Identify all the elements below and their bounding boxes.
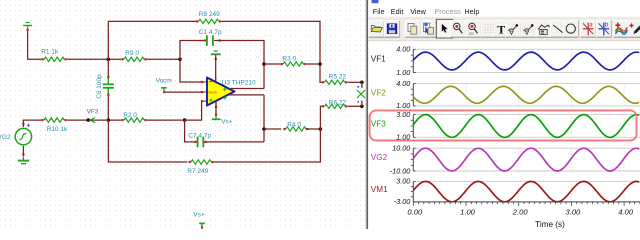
svg-text:VF3: VF3 <box>371 120 386 129</box>
svg-text:R2 0: R2 0 <box>123 112 137 119</box>
wire C7 to node D column <box>205 141 264 143</box>
wire Vocm to op-amp <box>165 91 202 93</box>
svg-text:R1 1k: R1 1k <box>41 48 59 55</box>
svg-text:10.00: 10.00 <box>392 144 410 153</box>
svg-text:Vocm: Vocm <box>156 77 172 84</box>
resistor R9 <box>122 50 147 61</box>
wire op-amp V+ pin to Vs+ <box>215 102 217 114</box>
svg-text:VG2: VG2 <box>371 153 388 162</box>
svg-text:VF3: VF3 <box>87 109 99 116</box>
svg-text:C6 100p: C6 100p <box>96 74 103 99</box>
ground GND2 above op-amp supply pin <box>211 51 221 60</box>
svg-text:File: File <box>373 7 385 16</box>
resistor R5 <box>322 74 347 85</box>
svg-text:C7 4.7p: C7 4.7p <box>188 132 211 139</box>
capacitor C1 <box>199 29 222 46</box>
wire GND2 to op-amp V- pin <box>215 55 217 81</box>
svg-text:-3.00: -3.00 <box>394 197 410 206</box>
op-amp U1 THP210 <box>203 77 256 106</box>
node output- dot and stub <box>357 101 363 108</box>
resistor R1 <box>41 48 66 61</box>
svg-text:T: T <box>497 23 505 37</box>
node C junction (R8 feedback tap) <box>318 62 322 66</box>
svg-text:Vocm: Vocm <box>208 91 217 95</box>
resistor R4 <box>283 121 308 131</box>
wire R4 to node E <box>306 128 320 130</box>
wire C1 to output column <box>214 41 264 89</box>
svg-text:R3 0: R3 0 <box>282 55 296 62</box>
wire node G down to C7 <box>185 120 196 142</box>
wire C6 down to node F <box>107 96 109 121</box>
wire R7 to node E <box>214 129 321 162</box>
svg-text:2.00: 2.00 <box>512 207 529 216</box>
wire R10 to node F <box>67 119 122 121</box>
svg-text:100: 100 <box>469 32 475 36</box>
voltage pin VF3 <box>87 109 99 123</box>
wire node A up to R8 row <box>108 21 196 59</box>
wire R9 to node B <box>147 58 180 60</box>
svg-text:4.00: 4.00 <box>618 207 634 216</box>
svg-text:VF1: VF1 <box>371 55 386 64</box>
capacitor C6 <box>96 74 114 99</box>
svg-text:Help: Help <box>464 7 479 16</box>
oscilloscope window <box>366 0 640 229</box>
node D junction (out- / R4 / C7) <box>262 127 266 131</box>
svg-text:1.00: 1.00 <box>396 101 410 110</box>
wire ground to R1 <box>28 31 42 60</box>
node B junction <box>178 58 182 62</box>
svg-text:R9 0: R9 0 <box>125 50 139 57</box>
svg-text:Vs+: Vs+ <box>193 211 205 218</box>
wire node G to op-amp in+ <box>185 101 203 120</box>
capacitor C7 <box>188 132 211 147</box>
wire out- down to R4 row and C7 <box>263 95 265 142</box>
wire node B up to C1 <box>180 41 204 60</box>
Vs+ supply tee below op-amp <box>212 106 233 125</box>
ground GND1 <box>23 23 32 31</box>
wire R1 to node A <box>67 58 107 60</box>
wire node E up to R6 <box>320 106 322 129</box>
ground GND3 below VG2 <box>18 157 29 164</box>
svg-text:4.00: 4.00 <box>396 79 410 88</box>
svg-text:U3 THP210: U3 THP210 <box>222 79 256 86</box>
svg-text:VF2: VF2 <box>371 88 386 97</box>
wire op-amp out- <box>230 94 265 96</box>
svg-text:View: View <box>410 7 426 16</box>
svg-text:4.00: 4.00 <box>396 45 410 54</box>
node F junction (VF3 net) <box>107 118 111 122</box>
node A junction <box>107 58 111 62</box>
wire node A down to C6 <box>107 59 109 76</box>
wire node D to R4 <box>264 128 281 130</box>
svg-text:Vs+: Vs+ <box>221 118 233 125</box>
Vocm input tee <box>156 77 172 93</box>
svg-text:-10.00: -10.00 <box>390 166 410 175</box>
wire R2 to node G <box>147 119 183 121</box>
wire op-amp out+ <box>231 88 265 90</box>
resistor R6 <box>322 99 347 108</box>
node G junction (in+ / C7) <box>183 118 187 122</box>
svg-text:R10 1k: R10 1k <box>47 126 68 133</box>
svg-text:VM1: VM1 <box>371 185 388 194</box>
wire node B down to op-amp in- <box>180 59 203 82</box>
svg-text:Process: Process <box>434 7 461 16</box>
svg-text:Time (s): Time (s) <box>535 220 565 229</box>
resistor R2 <box>122 112 147 122</box>
wire VG2 to ground <box>22 146 24 157</box>
svg-text:C1 4.7p: C1 4.7p <box>199 29 222 36</box>
resistor R7 <box>187 160 213 175</box>
svg-text:R4 0: R4 0 <box>287 121 301 128</box>
svg-text:0.00: 0.00 <box>407 207 423 216</box>
svg-text:R7 249: R7 249 <box>187 168 208 175</box>
svg-text:3.00: 3.00 <box>566 207 582 216</box>
wire R6 to output pin <box>347 105 362 107</box>
Vs+ supply tee bottom <box>193 211 205 228</box>
wire VG2 to R10 <box>23 120 41 127</box>
resistor R8 <box>196 11 221 24</box>
svg-text:R5 22: R5 22 <box>329 74 347 81</box>
svg-text:R8 249: R8 249 <box>199 11 220 18</box>
wire node F down to R7 row <box>108 120 187 162</box>
svg-text:1.00: 1.00 <box>396 68 410 77</box>
wire R3 to node C <box>306 63 320 65</box>
node E junction (R6/R7 tap) <box>319 127 323 131</box>
wire R8 to output node <box>221 21 322 82</box>
resistor R3 <box>281 55 306 66</box>
node out+ junction (C1/R3 column) <box>262 62 266 66</box>
svg-text:1.00: 1.00 <box>460 207 476 216</box>
svg-text:Edit: Edit <box>391 7 404 16</box>
wire R5 to output pin <box>347 81 362 83</box>
output voltage pin X (differential out) <box>357 90 365 98</box>
voltage source VG2 <box>0 123 32 156</box>
wire out+ node to R3 <box>264 63 281 65</box>
wire node A to R9 <box>110 58 121 60</box>
svg-text:VG2: VG2 <box>0 134 11 141</box>
node output+ dot and stub <box>357 81 363 88</box>
resistor R10 <box>42 118 69 133</box>
svg-text:R6 22: R6 22 <box>329 99 347 106</box>
svg-text:3.00: 3.00 <box>396 177 410 186</box>
